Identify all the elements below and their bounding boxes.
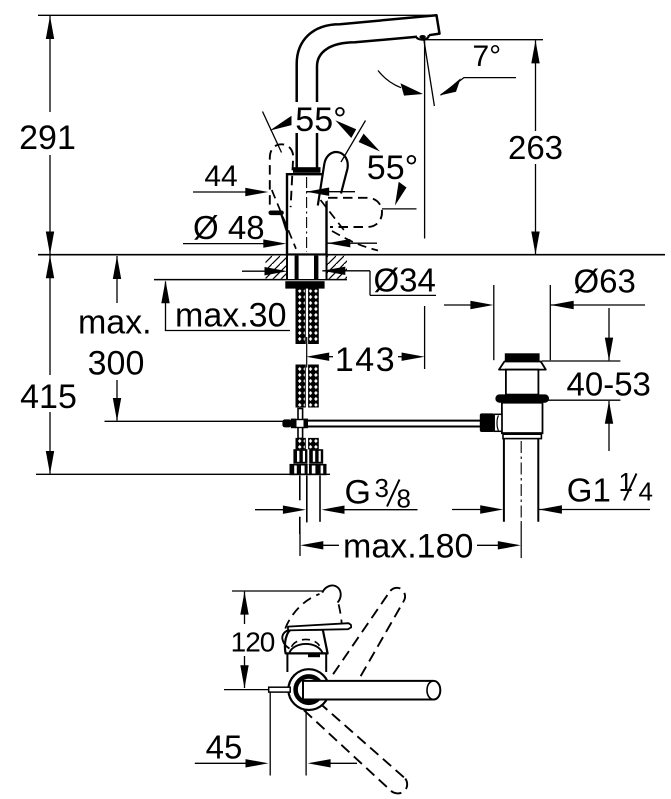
svg-text:max.: max.: [78, 304, 152, 342]
dimension 120: [231, 592, 275, 689]
svg-text:8: 8: [397, 484, 411, 514]
body centerline: [306, 177, 308, 252]
drain upper cylinder: [506, 370, 539, 395]
7 deg annotation: [378, 40, 516, 96]
svg-text:44: 44: [204, 160, 237, 193]
pin (left): [269, 687, 291, 692]
hose columns segment 3: [296, 438, 305, 449]
counter underside line: [154, 279, 347, 281]
cartridge cap (black bar): [293, 167, 321, 173]
svg-text:Ø34: Ø34: [374, 262, 436, 299]
body cylinder: [287, 174, 327, 254]
tailpipe centerline: [520, 441, 522, 523]
svg-text:3: 3: [375, 473, 389, 503]
supply pipes below nuts: [299, 475, 301, 500]
handle stub (left): [271, 211, 282, 216]
outlet dark mark: [419, 35, 425, 39]
dimension 40-53: [542, 308, 651, 451]
drain tailpipe: [503, 439, 505, 522]
boss inner arcs: [290, 644, 323, 653]
svg-text:415: 415: [20, 378, 77, 416]
drain o-ring flange (black): [495, 394, 549, 402]
dashed handle capsule (left position): [270, 144, 293, 207]
dimension Ø 48: [183, 209, 377, 248]
lower dashed lever position (tube down-right): [304, 703, 407, 794]
stream / reach extension line + 7 deg tilt line: [424, 39, 426, 239]
svg-text:55°: 55°: [295, 101, 346, 139]
counter hatch: [266, 256, 348, 279]
hose columns segment 1: [296, 289, 305, 344]
dimension G1 1/4: [452, 467, 653, 514]
svg-text:1: 1: [619, 467, 633, 497]
svg-text:291: 291: [19, 119, 76, 157]
svg-text:143: 143: [335, 341, 396, 379]
svg-text:G1: G1: [567, 471, 611, 508]
hose end connectors: [293, 449, 323, 464]
svg-text:7°: 7°: [473, 40, 502, 73]
dimension 45: [195, 728, 357, 767]
hose columns segment 2: [296, 365, 305, 407]
dimension 263 reference line at outlet: [425, 39, 543, 41]
counter top line: [38, 254, 665, 256]
bottom reference line: [36, 473, 330, 475]
escutcheon section below counter: [287, 256, 327, 279]
dimension 143: [306, 341, 424, 379]
dimension Ø63: [444, 262, 645, 309]
outer circle (escutcheon top view): [288, 669, 329, 710]
drain: extension lines: [493, 285, 495, 360]
dimension G 3/8: [255, 473, 418, 514]
dimension max. 300: [78, 256, 152, 421]
dimension max.180: [300, 528, 521, 566]
handle blade drooping tip: [282, 630, 289, 648]
dimension 44: [193, 160, 355, 196]
rod cross fitting: [282, 419, 291, 427]
top extension line (291 upper ref): [38, 14, 432, 16]
svg-text:263: 263: [508, 129, 563, 166]
pop-up rod vertical stem: [298, 409, 303, 439]
svg-text:120: 120: [231, 626, 275, 657]
horizontal pop-up rod to drain: [308, 420, 481, 422]
hidden line (dashed) through body left: [272, 190, 296, 249]
spout inner outline: [317, 37, 417, 170]
inner ring (lever ball): [296, 676, 322, 702]
svg-text:45: 45: [206, 728, 243, 765]
dimension 415: [20, 255, 77, 474]
drain lower body: [502, 403, 543, 434]
handle raised dashed silhouette: [285, 594, 319, 629]
svg-text:4: 4: [639, 477, 653, 507]
spout outlet nub: [417, 35, 429, 40]
drain collar: [499, 362, 546, 370]
dimension 291: [19, 16, 76, 255]
spout tube fill: [297, 15, 440, 175]
dashed handle capsule (horizontal closed position): [328, 198, 382, 227]
svg-text:300: 300: [88, 345, 145, 383]
svg-text:40-53: 40-53: [567, 365, 651, 402]
120 top extension line: [232, 590, 324, 592]
lever bar (solid, pointing right): [303, 681, 440, 700]
horseshoe washer / nut: [285, 281, 324, 288]
body square (top): [287, 651, 326, 672]
hidden line (dashed) body right: [321, 200, 346, 232]
45 extension lines: [269, 693, 271, 776]
handle boss (trapezoid): [285, 630, 328, 654]
dimension 263: [508, 40, 563, 254]
svg-text:max.30: max.30: [175, 297, 287, 335]
hose nuts: [290, 464, 327, 475]
svg-text:G: G: [345, 474, 371, 512]
rod knob at drain: [480, 413, 494, 432]
mounting bolts (black bars): [295, 256, 299, 280]
label Ø34 with leader: [242, 262, 436, 299]
drain coupling lines: [502, 432, 543, 434]
55 deg annotation (upper): [263, 101, 381, 162]
svg-text:max.180: max.180: [343, 528, 473, 566]
solid handle capsule (raised position): [318, 152, 348, 205]
55 deg annotation (lower): [367, 149, 418, 209]
centerline in hose break: [306, 337, 308, 368]
upper dashed lever position (tube up-right): [333, 588, 405, 691]
svg-text:55°: 55°: [367, 149, 418, 187]
svg-text:Ø 48: Ø 48: [193, 209, 265, 246]
label max.30: [161, 280, 290, 334]
lever axis reference line: [224, 689, 269, 691]
svg-text:Ø63: Ø63: [574, 262, 636, 299]
rod horizontal line (left reference): [105, 420, 283, 422]
spout outer outline: [297, 15, 440, 170]
drain plug cap: [505, 353, 540, 361]
handle blade (side profile): [288, 623, 351, 630]
